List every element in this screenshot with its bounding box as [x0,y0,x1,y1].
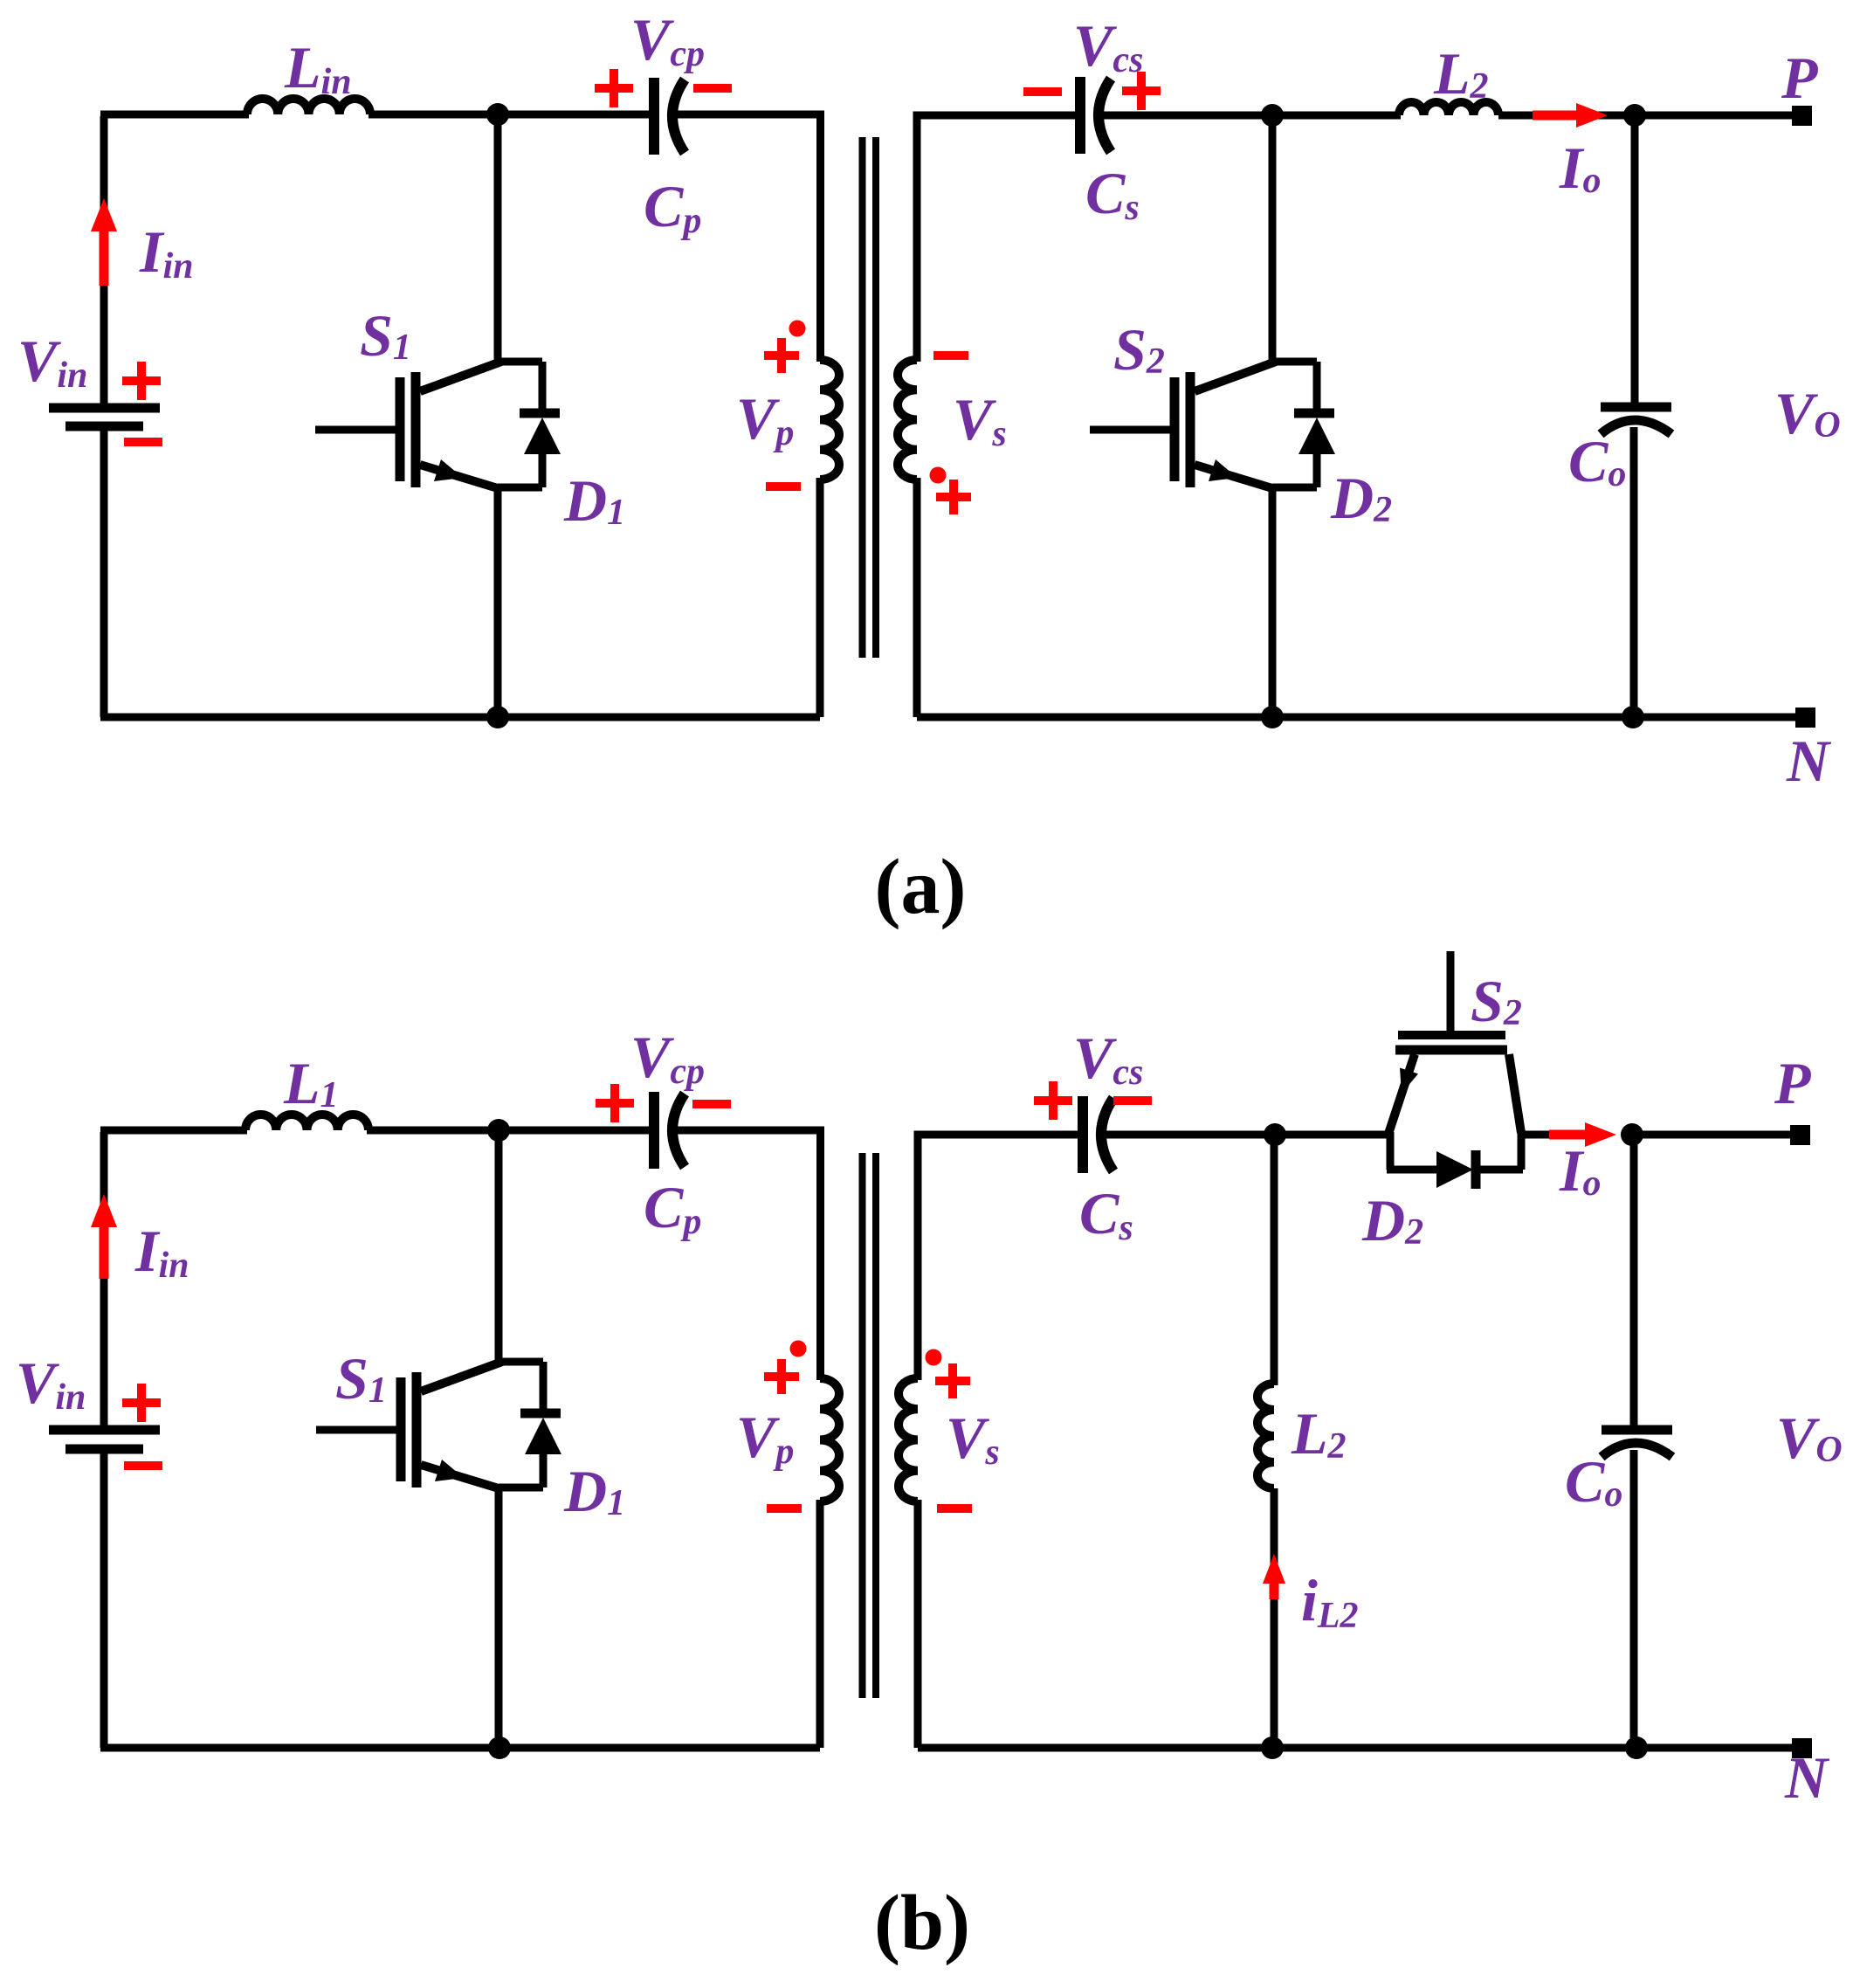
svg-text:Cs: Cs [1085,160,1140,228]
svg-text:(b): (b) [874,1880,970,1966]
red polarity dot at secondary top (b) [926,1349,942,1366]
svg-text:S1: S1 [335,1345,387,1412]
wire: output rail to terminal P (b) [1632,1131,1800,1139]
svg-text:Vp: Vp [736,385,794,453]
red - of Vs (b) [937,1504,972,1513]
red + of Vin (b) [122,1384,161,1422]
wire: secondary rail from L2 to node C1 (a) [1498,112,1801,120]
wire: Co top lead (a) [1631,115,1639,404]
svg-text:P: P [1781,45,1818,111]
wire: Vin negative lead, left rail lower segment (a) [100,431,108,717]
wire: primary winding bottom to bottom rail (b) [816,1500,824,1748]
red arrow Io (a) [1533,103,1608,128]
capacitor Co (a) [1601,407,1671,434]
transformer primary winding (a) [820,360,839,480]
wire: primary winding bottom to bottom rail (a) [816,478,824,717]
wire: secondary winding bottom to bottom rail (a) [913,478,921,717]
wire: L2 top lead (b) [1271,1135,1278,1385]
capacitor Cs (b) [1083,1096,1113,1173]
red arrow Io (b) [1549,1122,1616,1147]
svg-text:Vcp: Vcp [630,1024,705,1092]
red polarity dot at primary top (b) [790,1341,807,1357]
label Vp (b) [736,1404,794,1472]
wire: S1 emitter to bottom rail (b) [495,1488,503,1748]
label D1 (a) [563,467,625,534]
diode D1 (a) [520,362,561,487]
label Vcp (b) [630,1024,705,1092]
svg-text:Vin: Vin [17,328,87,396]
inductor L2 (b) [1257,1384,1274,1488]
svg-text:S2: S2 [1471,968,1522,1034]
battery Vin (a) [49,408,160,426]
wire: Vin negative lead, left rail lower segment (b) [100,1453,108,1748]
wire: Co bottom lead (b) [1630,1450,1638,1748]
wire: bottom rail of output loop (a) [917,714,1805,721]
label D1 (b) [563,1458,625,1524]
label Co (a) [1568,428,1626,494]
svg-text:Cp: Cp [644,1174,701,1242]
svg-text:Io: Io [1559,135,1601,201]
label Lin (a) [284,34,352,102]
red + of Vcs (b) [1034,1081,1072,1120]
label L2 (a) [1433,40,1489,107]
wire: top rail from input corner to L1 (b) [100,1127,247,1135]
label Vcs (b) [1073,1025,1143,1093]
wire: S2 emitter stub to diode anode (b) [1387,1132,1438,1170]
wire: top rail from Cp to transformer primary (b) [674,1130,821,1380]
svg-text:Io: Io [1559,1137,1601,1204]
transformer secondary winding (b) [899,1378,918,1501]
junction node at bottom of S2 (a) [1261,706,1284,728]
red arrow Iin (b) [91,1194,117,1279]
label N (a) [1786,728,1832,794]
red + of Vcp (b) [596,1084,634,1122]
svg-text:Vin: Vin [16,1349,86,1418]
red - of Vp (a) [766,482,801,491]
wire: bottom rail of input loop (a) [100,714,820,721]
svg-text:Iin: Iin [139,218,194,286]
svg-text:Co: Co [1565,1448,1622,1515]
svg-text:P: P [1774,1050,1811,1116]
label Iin (b) [134,1218,189,1286]
red + of Vcp (a) [595,69,633,107]
label S1 (a) [360,302,411,369]
red - of Vcp (b) [692,1100,731,1108]
wire: diode cathode to S2 collector stub (b) [1474,1133,1551,1170]
terminal P (b) [1790,1125,1810,1145]
red + of Vs (a) [936,480,971,514]
svg-text:L2: L2 [1433,40,1489,107]
svg-text:(a): (a) [875,844,967,930]
wire: S1 collector riser (a) [494,114,502,362]
caption (a) [875,844,967,930]
inductor Lin (a) [247,99,370,114]
label D2 (a) [1330,465,1392,531]
transformer secondary winding (a) [898,360,917,480]
svg-text:Co: Co [1568,428,1626,494]
red - of Vin (b) [124,1461,162,1470]
label Vs (a) [953,386,1007,454]
label Io (a) [1559,135,1601,201]
junction node A1 at top of S1 (a) [486,103,509,126]
inductor L2 (a) [1399,102,1498,115]
transistor S1 (a) [315,362,542,488]
red arrow iL2 (b) [1263,1554,1285,1599]
svg-text:N: N [1786,728,1832,794]
svg-text:L2: L2 [1291,1400,1347,1467]
junction node at top of L2 (b) [1264,1123,1286,1146]
wire: S1 collector riser (b) [495,1130,503,1362]
label Io (b) [1559,1137,1601,1204]
label Vcs (a) [1073,12,1143,80]
transistor S2 (a) [1090,362,1317,488]
label Vcp (a) [630,6,705,74]
label Vp (a) [736,385,794,453]
svg-text:D2: D2 [1361,1187,1423,1253]
junction node at top of Co (b) [1621,1123,1643,1146]
wire: Co bottom lead (a) [1630,427,1638,717]
wire: top rail from L1 to node A2 and on to Cp (b) [367,1127,651,1135]
label D2 (b) [1361,1187,1423,1253]
label Cs (b) [1079,1180,1133,1248]
wire: bottom rail of input loop (b) [100,1744,820,1752]
label VO (a) [1774,380,1841,446]
junction node B1 at top of S2 (a) [1261,104,1284,127]
wire: secondary rail from Cs to node B1 (a) [1101,112,1401,120]
svg-text:VO: VO [1774,380,1841,446]
svg-text:Vp: Vp [736,1404,794,1472]
wire: top rail from Cp to transformer primary (a) [674,114,821,362]
red + of Vp (b) [764,1359,799,1394]
svg-text:iL2: iL2 [1301,1567,1359,1636]
svg-text:S2: S2 [1113,316,1165,383]
red + of Vin (a) [122,362,161,400]
label P (a) [1781,45,1818,111]
svg-text:VO: VO [1776,1405,1843,1471]
capacitor Cp (b) [654,1092,685,1169]
label S1 (b) [335,1345,387,1412]
label N (b) [1784,1744,1830,1811]
red polarity dot at primary top (a) [789,321,806,337]
label L2 (b) [1291,1400,1347,1467]
wire: bottom rail of output loop (b) [918,1744,1801,1752]
label S2 (b) [1471,968,1522,1034]
svg-text:L1: L1 [283,1050,339,1116]
label P (b) [1774,1050,1811,1116]
svg-text:Vs: Vs [953,386,1007,454]
wire: secondary winding top to top rail corner (b) [918,1135,1080,1380]
svg-text:Cs: Cs [1079,1180,1133,1248]
svg-text:Lin: Lin [284,34,352,102]
terminal N (b) [1792,1738,1812,1758]
red - of Vin (a) [124,438,162,446]
capacitor Co (b) [1602,1430,1672,1457]
transformer primary winding (b) [820,1378,839,1501]
diode D2 (b) [1436,1150,1476,1189]
red + of Vcs (a) [1122,72,1161,110]
caption (b) [874,1880,970,1966]
junction node C1 at top of Co (a) [1623,104,1646,127]
transistor S2 (b) [1388,1035,1521,1134]
wire: secondary winding bottom to bottom rail (b) [914,1500,922,1748]
wire: secondary rail from Cs to S2 emitter (b) [1104,1131,1392,1139]
diode D1 (b) [520,1362,561,1488]
label Vin (b) [16,1349,86,1418]
label iL2 (b) [1301,1567,1359,1636]
svg-text:Vcp: Vcp [630,6,705,74]
svg-text:D1: D1 [563,1458,625,1524]
capacitor Cs (a) [1080,77,1111,154]
svg-text:Vcs: Vcs [1073,1025,1143,1093]
red arrow Iin (a) [91,198,117,286]
junction node at bottom of Co (a) [1622,706,1644,728]
capacitor Cp (a) [654,78,685,155]
red - of Vcs (a) [1023,87,1062,96]
svg-text:D2: D2 [1330,465,1392,531]
transformer core (a) [863,137,877,658]
wire: top rail from Lin to node A1 and on to Cp (a) [369,111,651,119]
junction node at bottom of S1 (b) [488,1736,511,1759]
wire: Vin positive lead, left rail upper segment (a) [100,116,108,404]
svg-text:S1: S1 [360,302,411,369]
red - of Vp (b) [767,1504,802,1513]
transformer core (b) [863,1153,877,1698]
wire: S1 emitter to bottom rail (a) [494,487,502,717]
diode D2 (a) [1294,362,1335,487]
wire: Co top lead (b) [1630,1135,1638,1427]
inductor L1 (b) [245,1115,369,1130]
wire: secondary winding top to top rail corner (a) [917,115,1078,362]
junction node at bottom of S1 (a) [486,706,509,728]
label Co (b) [1565,1448,1622,1515]
label L1 (b) [283,1050,339,1116]
red polarity dot at secondary bottom (a) [930,467,947,484]
label Iin (a) [139,218,194,286]
wire: S2 gate lead (b) [1447,951,1455,1032]
wire: S2 emitter to bottom rail (a) [1269,487,1277,717]
red - of Vcp (a) [693,84,732,93]
transistor S1 (b) [316,1362,543,1488]
label Cp (a) [644,173,701,241]
terminal P (a) [1792,106,1812,126]
label Cp (b) [644,1174,701,1242]
svg-text:N: N [1784,1744,1830,1811]
terminal N (a) [1795,708,1815,728]
junction node A2 at top of S1 (b) [487,1119,510,1142]
junction node at bottom of Co (b) [1625,1736,1648,1759]
wire: L2 bottom lead (b) [1271,1488,1278,1748]
svg-text:Vs: Vs [946,1405,1000,1473]
wire: top rail from input corner to Lin (a) [100,111,249,119]
label VO (b) [1776,1405,1843,1471]
label Cs (a) [1085,160,1140,228]
label S2 (a) [1113,316,1165,383]
battery Vin (b) [49,1430,160,1449]
svg-text:Iin: Iin [134,1218,189,1286]
red + of Vp (a) [764,338,799,373]
red + of Vs (b) [935,1363,970,1398]
wire: S2 collector riser (a) [1269,115,1277,362]
red - of Vs (a) [933,351,968,360]
wire: Vin positive lead, left rail upper segment (b) [100,1132,108,1425]
red - of Vcs (b) [1113,1096,1152,1105]
junction node at bottom of L2 (b) [1261,1736,1284,1759]
svg-text:Cp: Cp [644,173,701,241]
label Vs (b) [946,1405,1000,1473]
svg-text:Vcs: Vcs [1073,12,1143,80]
svg-text:D1: D1 [563,467,625,534]
label Vin (a) [17,328,87,396]
